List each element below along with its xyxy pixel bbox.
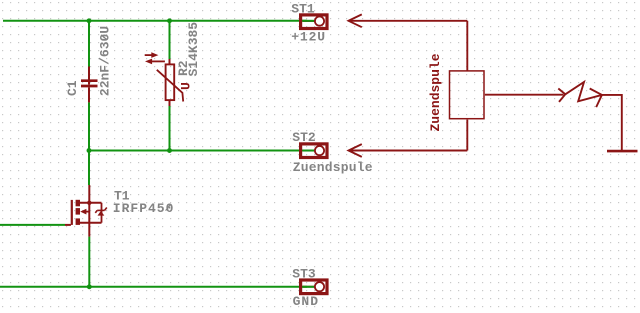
connector ST1 (301, 15, 327, 29)
svg-text:+12U: +12U (291, 29, 326, 44)
svg-text:ST1: ST1 (291, 2, 315, 17)
junction mid R2 (167, 148, 172, 153)
junction mid C1 (87, 148, 92, 153)
spark gap left electrode (558, 89, 565, 102)
svg-text:S14K385: S14K385 (186, 22, 201, 77)
arrow to ST2 (349, 144, 362, 157)
svg-text:IRFP450: IRFP450 (113, 201, 175, 216)
junction top R2 (167, 18, 172, 23)
body diode cathode (zener) (95, 208, 107, 213)
gate bar (71, 200, 73, 225)
connector ST3 (301, 280, 327, 294)
channel bars (76, 200, 105, 225)
junction dot drain (87, 201, 91, 205)
wire source vertical (88, 237, 90, 287)
wire R2 bottom vertical (169, 106, 171, 151)
svg-text:GND: GND (293, 294, 319, 309)
junction top C1 (87, 18, 92, 23)
wire R2 top vertical (169, 21, 171, 59)
arrow to ST1 (349, 14, 362, 27)
varistor R2 (157, 59, 183, 106)
svg-text:Zuendspule: Zuendspule (293, 160, 373, 175)
wire coil to bottom corner (466, 120, 468, 151)
bottom horizontal (79, 222, 102, 224)
wire corner down to coil (466, 21, 468, 71)
svg-text:Zuendspule: Zuendspule (428, 53, 443, 131)
junction bottom source (87, 284, 92, 289)
wire spark to ground (602, 95, 622, 150)
varistor arrows (145, 52, 165, 64)
wire bottom corner to arrow (349, 150, 468, 152)
wire drain vertical (88, 151, 90, 186)
wire mid net Zuendspule (89, 150, 307, 152)
wire gate net (0, 224, 65, 226)
central vertical / source (88, 203, 90, 237)
top horizontal (79, 202, 102, 204)
capacitor C1 (81, 67, 98, 103)
spark gap right electrode (590, 89, 602, 108)
diode branch vertical (101, 203, 103, 223)
wire C1 bottom vertical (88, 102, 90, 150)
wire C1 top vertical (88, 21, 90, 67)
svg-text:ST3: ST3 (292, 267, 316, 282)
svg-text:ST2: ST2 (292, 130, 316, 145)
wire coil HV out (485, 94, 564, 96)
connector ST2 (301, 144, 327, 158)
body diode triangle (98, 211, 105, 216)
wire arrow to corner (349, 20, 468, 22)
svg-text:U: U (178, 82, 193, 90)
spark gap lightning (565, 82, 602, 101)
gate lead (65, 224, 71, 226)
drain lead (88, 185, 90, 203)
transistor T1 (65, 185, 102, 237)
bulk arrow (80, 209, 86, 215)
ignition coil primary circuit (red net) (349, 14, 638, 157)
coil box Zuendspule (450, 71, 485, 119)
svg-text:C1: C1 (65, 80, 80, 96)
ground bar (607, 150, 638, 153)
wire bottom net GND (0, 286, 307, 288)
wire top net +12V (3, 20, 307, 22)
svg-text:22nF/630U: 22nF/630U (98, 26, 113, 96)
